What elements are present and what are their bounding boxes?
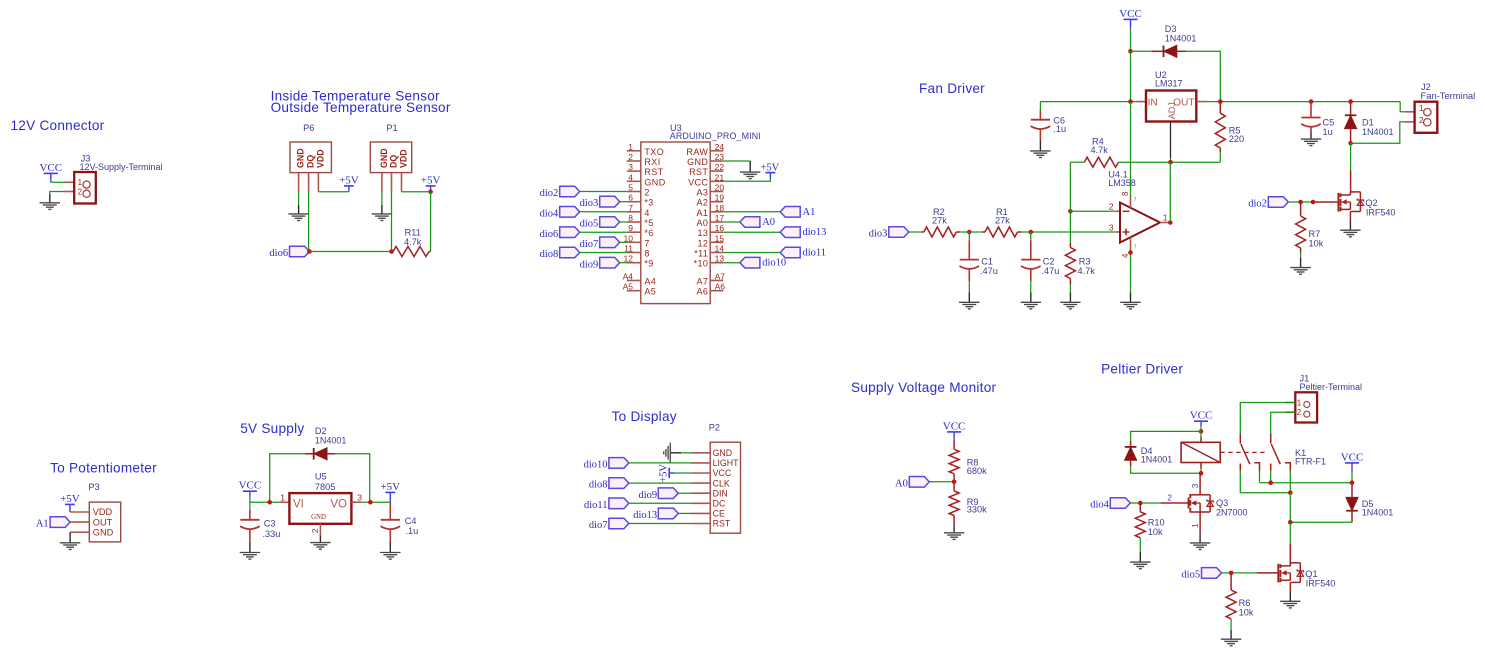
resistor R9 330k: [953, 482, 955, 491]
net flag dio9 (U3): [600, 257, 620, 268]
svg-text:+5V: +5V: [761, 162, 780, 173]
svg-text:P1: P1: [386, 123, 397, 133]
junction cross row / Q1 drain: [1288, 490, 1293, 495]
net flag dio9 (display): [658, 488, 678, 499]
svg-text:LIGHT: LIGHT: [713, 458, 740, 468]
wire A0 to divider: [929, 481, 954, 483]
U3 right pins A7 A6: [710, 280, 723, 282]
svg-text:dio11: dio11: [584, 500, 608, 511]
power symbol +5V (P3): [65, 503, 75, 505]
ground (P1): [381, 205, 383, 214]
svg-text:5: 5: [628, 183, 633, 193]
svg-text:22: 22: [715, 162, 725, 172]
svg-text:ARDUINO_PRO_MINI: ARDUINO_PRO_MINI: [670, 131, 761, 141]
svg-text:16: 16: [715, 223, 725, 233]
svg-text:21: 21: [715, 172, 725, 182]
junction VCC/D3: [1128, 49, 1133, 54]
svg-text:A3: A3: [696, 188, 708, 198]
wire OUT to J2 pin1: [1400, 102, 1404, 112]
svg-text:10k: 10k: [1309, 239, 1324, 249]
wire dio9 to DIN: [678, 492, 691, 494]
svg-text:+5V: +5V: [339, 174, 359, 186]
svg-text:dio7: dio7: [580, 239, 599, 250]
wire R2 to C1 node: [960, 231, 969, 233]
junction VCC/coil/D4: [1199, 429, 1204, 434]
svg-text:dio9: dio9: [580, 259, 599, 270]
net flag dio6 (U3): [560, 227, 580, 238]
svg-text:Supply Voltage Monitor: Supply Voltage Monitor: [851, 380, 997, 395]
diode D4 1N4001: [1130, 441, 1132, 447]
svg-text:IRF540: IRF540: [1366, 208, 1396, 218]
ground (C5): [1301, 138, 1321, 140]
transistor Q2 IRF540: [1337, 193, 1339, 212]
wire LM317 OUT to right: [1207, 101, 1401, 103]
relay contact pole 1: [1240, 403, 1295, 434]
ground (U5): [310, 542, 330, 544]
wire dio3 to U3: [620, 201, 627, 203]
ground (C4): [389, 542, 391, 553]
svg-text:1: 1: [1190, 523, 1200, 528]
svg-text:RXI: RXI: [644, 157, 660, 167]
svg-text:RST: RST: [689, 167, 708, 177]
net flag A1 (U3): [780, 207, 800, 218]
IC U5 7805: [279, 501, 290, 503]
U5 VO to +5V: [351, 501, 361, 503]
svg-text:1u: 1u: [1323, 127, 1333, 137]
svg-text:LM317: LM317: [1155, 79, 1183, 89]
svg-text:VI: VI: [293, 498, 304, 510]
svg-text:A1: A1: [36, 519, 49, 530]
net flag dio4 (U3): [560, 207, 580, 218]
wire pole2 NC down: [1270, 471, 1272, 483]
svg-text:2: 2: [310, 528, 320, 533]
wire C6 to LM317 IN: [1040, 101, 1135, 103]
svg-text:4: 4: [628, 172, 633, 182]
wire dio13 to U3: [723, 231, 780, 233]
svg-text:13: 13: [697, 228, 708, 238]
transistor Q1 IRF540: [1277, 564, 1279, 583]
ground (12V connector): [49, 194, 51, 203]
svg-text:DQ: DQ: [389, 155, 399, 168]
ground (R10): [1130, 561, 1150, 563]
wire dio8 to U3: [580, 252, 627, 254]
relay K1 coil: [1200, 431, 1202, 437]
svg-text:Peltier Driver: Peltier Driver: [1101, 362, 1183, 377]
svg-text:R10: R10: [1148, 518, 1165, 528]
svg-text:To Potentiometer: To Potentiometer: [50, 461, 157, 476]
wire dio4 to gate: [1130, 502, 1160, 504]
junction dio2/R7: [1298, 200, 1303, 205]
svg-text:VCC: VCC: [943, 420, 966, 432]
capacitor C6 .1u: [1039, 102, 1041, 111]
wire dio10 to U3: [723, 262, 740, 264]
junction gate lead: [1311, 200, 1316, 205]
ground (C3): [249, 542, 251, 553]
wire dio13 to CE: [678, 512, 691, 514]
svg-text:+5V: +5V: [60, 493, 80, 505]
svg-text:A6: A6: [715, 282, 726, 292]
svg-text:12: 12: [697, 238, 708, 248]
diode D1 1N4001: [1348, 99, 1353, 104]
ground (R6): [1221, 638, 1241, 640]
resistor R10 10k: [1139, 503, 1141, 512]
wire VCC node down to LM317 IN: [1130, 51, 1132, 101]
svg-text:VCC: VCC: [1341, 451, 1364, 463]
connector J1 Peltier-Terminal: [1285, 402, 1295, 404]
junction IN node: [1128, 99, 1133, 104]
connector P6: [290, 142, 331, 173]
net flag dio5: [1202, 568, 1222, 579]
wire P1 GND to ground: [381, 192, 383, 205]
svg-text:1: 1: [78, 178, 83, 187]
svg-text:FTR-F1: FTR-F1: [1295, 457, 1326, 467]
junction R11 left / P1 DQ: [389, 249, 394, 254]
power symbol +5V (U3): [765, 172, 775, 174]
wire dio10 to LIGHT: [629, 462, 691, 464]
svg-text:VO: VO: [330, 498, 347, 510]
svg-text:27k: 27k: [995, 216, 1010, 226]
wire dio2 to gate node: [1288, 201, 1313, 203]
IC U3 ARDUINO_PRO_MINI body: [641, 142, 710, 304]
wire dio11 to U3: [723, 252, 780, 254]
relay actuation dashed link: [1220, 451, 1267, 453]
svg-text:GND: GND: [311, 514, 326, 521]
svg-text:A0: A0: [762, 217, 775, 228]
svg-text:+5V: +5V: [421, 174, 441, 186]
svg-text:dio4: dio4: [1090, 500, 1109, 511]
net flag dio11 (display): [609, 498, 629, 509]
svg-text:4.7k: 4.7k: [1091, 145, 1109, 155]
U3 left pins A4 A5: [627, 280, 641, 282]
net flag A1 (P3): [50, 517, 70, 528]
power symbol +5V (5V supply): [385, 491, 395, 493]
wire VCC to U5 VI: [250, 501, 279, 503]
junction dio6/P6-DQ: [307, 249, 312, 254]
svg-text:1: 1: [1163, 212, 1168, 222]
net flag dio5 (U3): [600, 217, 620, 228]
capacitor C1 .47u: [968, 232, 970, 240]
svg-text:TXO: TXO: [644, 147, 664, 157]
svg-text:VCC: VCC: [1190, 410, 1213, 422]
junction R2/R1/C1: [967, 230, 972, 235]
net flag dio3: [889, 227, 909, 238]
net flag dio3 (U3): [600, 196, 620, 207]
svg-text:VCC: VCC: [1119, 8, 1142, 20]
svg-text:Outside Temperature Sensor: Outside Temperature Sensor: [271, 100, 451, 115]
junction coil bottom / D4 / Q3 drain: [1199, 471, 1204, 476]
svg-text:7: 7: [1134, 197, 1137, 203]
wire dio8 to CLK: [629, 482, 691, 484]
wire +5V down to R11 right: [430, 192, 432, 252]
svg-text:2: 2: [78, 187, 83, 196]
svg-text:4.7k: 4.7k: [404, 237, 422, 247]
power symbol VCC (5V supply): [243, 490, 257, 492]
U3 left pins 1-12: [627, 150, 641, 152]
Q2 gate lead: [1313, 201, 1338, 203]
junction inverting input node: [1068, 209, 1073, 214]
wire U3 pin21 VCC to +5V: [723, 178, 770, 181]
svg-text:1: 1: [628, 142, 633, 152]
svg-text:*10: *10: [694, 259, 709, 269]
svg-text:DIN: DIN: [713, 488, 728, 498]
net flag dio10 (display): [609, 458, 629, 469]
Q3 source to ground: [1199, 512, 1201, 532]
ground (R3): [1069, 293, 1071, 303]
svg-text:dio9: dio9: [639, 490, 658, 501]
transistor Q3 2N7000: [1188, 498, 1190, 509]
svg-text:1N4001: 1N4001: [1141, 454, 1173, 464]
svg-text:A5: A5: [623, 282, 634, 292]
wire pole1 NC down to cross row: [1240, 471, 1290, 493]
junction +5V/R11 node: [428, 189, 433, 194]
svg-text:680k: 680k: [967, 466, 987, 476]
svg-text:dio4: dio4: [540, 208, 559, 219]
wire to opamp inverting input: [1070, 210, 1115, 212]
power symbol +5V (display, rotated): [668, 468, 670, 478]
svg-text:13: 13: [715, 254, 725, 264]
svg-text:VDD: VDD: [315, 149, 325, 168]
power symbol VCC (D5): [1345, 462, 1359, 464]
svg-text:+5V: +5V: [380, 481, 400, 493]
connector J2 Fan-Terminal: [1404, 111, 1414, 113]
svg-text:DC: DC: [713, 499, 726, 509]
wire A0 to U3: [723, 221, 740, 223]
svg-text:*6: *6: [644, 228, 653, 238]
svg-text:GND: GND: [93, 527, 114, 537]
svg-text:.1u: .1u: [1053, 124, 1066, 134]
connector P3: [89, 502, 120, 542]
svg-text:LM358: LM358: [1108, 178, 1136, 188]
svg-text:27k: 27k: [932, 216, 947, 226]
wire Q2 drain: [1350, 143, 1352, 170]
svg-text:CE: CE: [713, 509, 725, 519]
net flag dio6: [290, 246, 310, 257]
svg-text:VDD: VDD: [93, 507, 113, 517]
junction VCC/D5: [1350, 480, 1355, 485]
svg-text:+5V: +5V: [659, 464, 670, 483]
wire P6 VDD to +5V: [318, 191, 349, 193]
svg-text:8: 8: [644, 249, 649, 259]
svg-text:A7: A7: [696, 277, 708, 287]
resistor R6 10k: [1230, 573, 1232, 590]
svg-text:17: 17: [715, 213, 725, 223]
svg-text:CLK: CLK: [713, 478, 730, 488]
net flag dio13 (U3): [780, 227, 800, 238]
net flag dio8 (U3): [560, 247, 580, 258]
wire P6 DQ down to dio6 net: [308, 192, 310, 252]
svg-text:3: 3: [357, 493, 362, 503]
Q1 gate lead: [1257, 572, 1278, 574]
svg-text:3: 3: [628, 162, 633, 172]
svg-text:dio8: dio8: [589, 480, 608, 491]
svg-text:15: 15: [715, 233, 725, 243]
svg-text:VDD: VDD: [399, 149, 409, 168]
svg-text:dio6: dio6: [540, 229, 559, 240]
diode D5 1N4001: [1351, 483, 1353, 498]
svg-text:dio6: dio6: [269, 248, 288, 259]
svg-text:dio3: dio3: [580, 198, 599, 209]
net flag A0 (U3): [740, 217, 760, 228]
svg-text:U5: U5: [315, 472, 327, 482]
svg-text:.47u: .47u: [1042, 266, 1060, 276]
wire Q1 drain: [1289, 522, 1291, 543]
junction divider: [952, 480, 957, 485]
svg-text:1N4001: 1N4001: [315, 435, 347, 445]
svg-text:Q2: Q2: [1365, 198, 1377, 208]
net flag dio4: [1110, 498, 1130, 509]
svg-text:GND: GND: [296, 148, 306, 168]
wire J3 pin 2 to ground: [50, 192, 63, 195]
junction VI node: [267, 500, 272, 505]
U3 right pins 24-13: [710, 150, 723, 152]
wire VCC to J3 pin 1: [51, 181, 63, 183]
svg-text:6: 6: [628, 193, 633, 203]
wire R4 left down to inverting input: [1069, 162, 1071, 211]
resistor R4 4.7k: [1070, 161, 1084, 163]
net flag dio13 (display): [658, 508, 678, 519]
wire U3 pin23 GND to ground: [723, 160, 750, 162]
wire dio6 to R11: [310, 251, 392, 253]
diode D2 1N4001: [305, 453, 314, 455]
junction ADJ/R4/R5/opamp-out: [1168, 160, 1173, 165]
svg-text:DQ: DQ: [306, 155, 316, 168]
svg-text:18: 18: [715, 203, 725, 213]
svg-text:19: 19: [715, 193, 725, 203]
net flag dio11 (U3): [780, 247, 800, 258]
net flag dio10 (U3): [740, 257, 760, 268]
wire dio9 to U3: [620, 262, 627, 264]
net flag dio2: [1268, 197, 1288, 208]
svg-text:GND: GND: [379, 148, 389, 168]
resistor R8 680k: [953, 439, 955, 449]
svg-text:dio10: dio10: [584, 460, 608, 471]
svg-text:Fan Driver: Fan Driver: [919, 81, 985, 96]
svg-text:8: 8: [1121, 192, 1130, 196]
svg-text:*9: *9: [644, 259, 653, 269]
svg-text:C3: C3: [264, 519, 276, 529]
svg-text:To Display: To Display: [612, 409, 677, 424]
svg-text:14: 14: [715, 244, 725, 254]
ground (C6): [1039, 141, 1041, 151]
diode D3 1N4001: [1151, 50, 1163, 52]
svg-text:2: 2: [1297, 408, 1302, 417]
junction dio5/R6: [1229, 571, 1234, 576]
ground (Q2): [1340, 229, 1360, 231]
resistor R2 27k: [921, 231, 924, 233]
wire A1 to U3: [723, 211, 780, 213]
svg-text:4.7k: 4.7k: [1078, 266, 1096, 276]
wire P1 DQ down to R11: [391, 192, 393, 252]
svg-text:A2: A2: [696, 198, 708, 208]
svg-text:12V-Supply-Terminal: 12V-Supply-Terminal: [80, 162, 163, 172]
svg-text:7: 7: [644, 238, 649, 248]
svg-text:A5: A5: [644, 287, 656, 297]
svg-text:RAW: RAW: [686, 147, 708, 157]
svg-text:OUT: OUT: [93, 517, 113, 527]
svg-text:dio13: dio13: [633, 510, 657, 521]
svg-text:12V Connector: 12V Connector: [11, 118, 105, 133]
wire D3 to OUT node: [1186, 51, 1220, 101]
wire dio2 to U3: [580, 191, 627, 193]
junction VO node: [368, 500, 373, 505]
wire VCC node to D4: [1131, 431, 1201, 441]
junction D1/J2-2/Q2 drain: [1348, 141, 1353, 146]
connector J3 12V-Supply-Terminal: [63, 181, 74, 183]
svg-text:VCC: VCC: [688, 177, 708, 187]
svg-text:7805: 7805: [315, 482, 335, 492]
svg-text:20: 20: [715, 183, 725, 193]
op-amp U4.1 LM358: [1120, 203, 1160, 243]
Q2 source to ground: [1349, 212, 1351, 221]
svg-text:7: 7: [628, 203, 633, 213]
svg-text:2: 2: [1167, 493, 1172, 503]
svg-text:*3: *3: [644, 198, 653, 208]
svg-text:C4: C4: [405, 516, 417, 526]
svg-text:A1: A1: [803, 207, 816, 218]
svg-text:1N4001: 1N4001: [1362, 507, 1394, 517]
capacitor C4 .1u: [389, 502, 391, 520]
svg-text:VCC: VCC: [39, 162, 62, 174]
wire dio5 to U3: [620, 221, 627, 223]
svg-text:A6: A6: [696, 287, 708, 297]
svg-text:330k: 330k: [967, 504, 987, 514]
svg-text:GND: GND: [644, 177, 665, 187]
wire P1 VDD to +5V: [402, 191, 431, 193]
svg-text:A4: A4: [644, 277, 656, 287]
svg-text:10k: 10k: [1148, 527, 1163, 537]
svg-text:.1u: .1u: [406, 526, 419, 536]
ground (opamp): [1120, 301, 1140, 303]
ground (Q3): [1190, 542, 1210, 544]
resistor R3 4.7k: [1069, 211, 1071, 243]
svg-text:2: 2: [628, 152, 633, 162]
junction Q1 drain node: [1288, 520, 1293, 525]
svg-text:2N7000: 2N7000: [1216, 508, 1248, 518]
wire pole1 NO down to VCC row: [1259, 471, 1261, 483]
svg-text:3: 3: [1109, 222, 1114, 232]
svg-text:*11: *11: [694, 249, 708, 259]
net flag dio2 (U3): [560, 186, 580, 197]
wire P6 GND to ground: [298, 192, 300, 205]
connector P1: [370, 142, 411, 173]
junction dio4/R10: [1138, 501, 1143, 506]
svg-text:dio2: dio2: [1248, 199, 1267, 210]
svg-text:23: 23: [715, 152, 725, 162]
wire dio11 to DC: [629, 502, 691, 504]
svg-text:P6: P6: [303, 123, 314, 133]
svg-text:A1: A1: [696, 208, 708, 218]
svg-text:A7: A7: [715, 272, 726, 282]
svg-text:VCC: VCC: [239, 480, 262, 492]
wire VCC row to D5: [1260, 482, 1353, 484]
ground (P6): [298, 205, 300, 214]
svg-text:GND: GND: [687, 157, 708, 167]
wire dio6 to U3: [580, 231, 627, 233]
wire down to Q1 drain node: [1289, 493, 1291, 523]
ground (Q1): [1280, 600, 1300, 602]
svg-text:1N4001: 1N4001: [1362, 127, 1394, 137]
junction OUT/R5: [1218, 99, 1223, 104]
svg-text:A0: A0: [895, 478, 908, 489]
resistor R7 10k: [1300, 202, 1302, 216]
wire R1 to C2 node and opamp +: [1021, 231, 1116, 233]
wire D2 to VO node: [335, 454, 370, 502]
wire dio7 to U3: [620, 241, 627, 243]
net flag dio8 (display): [609, 478, 629, 489]
IC U2 LM317: [1136, 101, 1146, 103]
svg-text:5V Supply: 5V Supply: [240, 421, 304, 436]
power symbol VCC (monitor): [947, 431, 961, 433]
